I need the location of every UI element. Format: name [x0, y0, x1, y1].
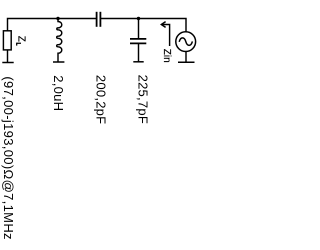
- node: junction dot at inductor top: [56, 17, 59, 20]
- capacitor C1 series plates (200,2pF): [97, 12, 101, 27]
- wire: source bottom lead: [185, 52, 187, 63]
- wire: ZL bottom lead: [7, 50, 9, 63]
- label ZL: [16, 36, 27, 46]
- label Zin: [161, 49, 172, 63]
- ground (under shunt cap): [133, 61, 143, 63]
- annotation: load impedance text: [1, 76, 16, 239]
- svg-text:2,0uH: 2,0uH: [51, 75, 66, 111]
- wire: shunt cap bottom lead: [138, 43, 140, 61]
- inductor L1 (coil): [57, 19, 62, 63]
- svg-text:Zin: Zin: [161, 49, 172, 63]
- label 200,2pF: [94, 75, 109, 124]
- ground (under source): [178, 61, 195, 63]
- Zin arrow: [161, 22, 169, 46]
- load impedance ZL (box): [3, 31, 11, 50]
- wire: top rail left segment (ZL top to series cap left plate): [8, 19, 97, 32]
- svg-text:Z: Z: [16, 36, 27, 42]
- svg-text:(97,00-j193,00)Ω@7,1MHz: (97,00-j193,00)Ω@7,1MHz: [1, 76, 16, 239]
- ground (under ZL): [2, 62, 13, 64]
- node: junction dot at shunt cap top: [137, 17, 140, 20]
- label 225,7pF: [135, 75, 150, 124]
- ground (under inductor): [53, 61, 64, 63]
- label 2,0uH: [51, 75, 66, 111]
- svg-text:225,7pF: 225,7pF: [135, 75, 150, 124]
- AC source V1 (circle with sine): [176, 32, 196, 52]
- capacitor C2 shunt plates (225,7pF): [130, 39, 146, 44]
- wire: top rail right segment (series cap right plate to source top): [101, 19, 186, 32]
- wire: shunt cap top lead: [138, 19, 140, 39]
- svg-text:200,2pF: 200,2pF: [94, 75, 109, 124]
